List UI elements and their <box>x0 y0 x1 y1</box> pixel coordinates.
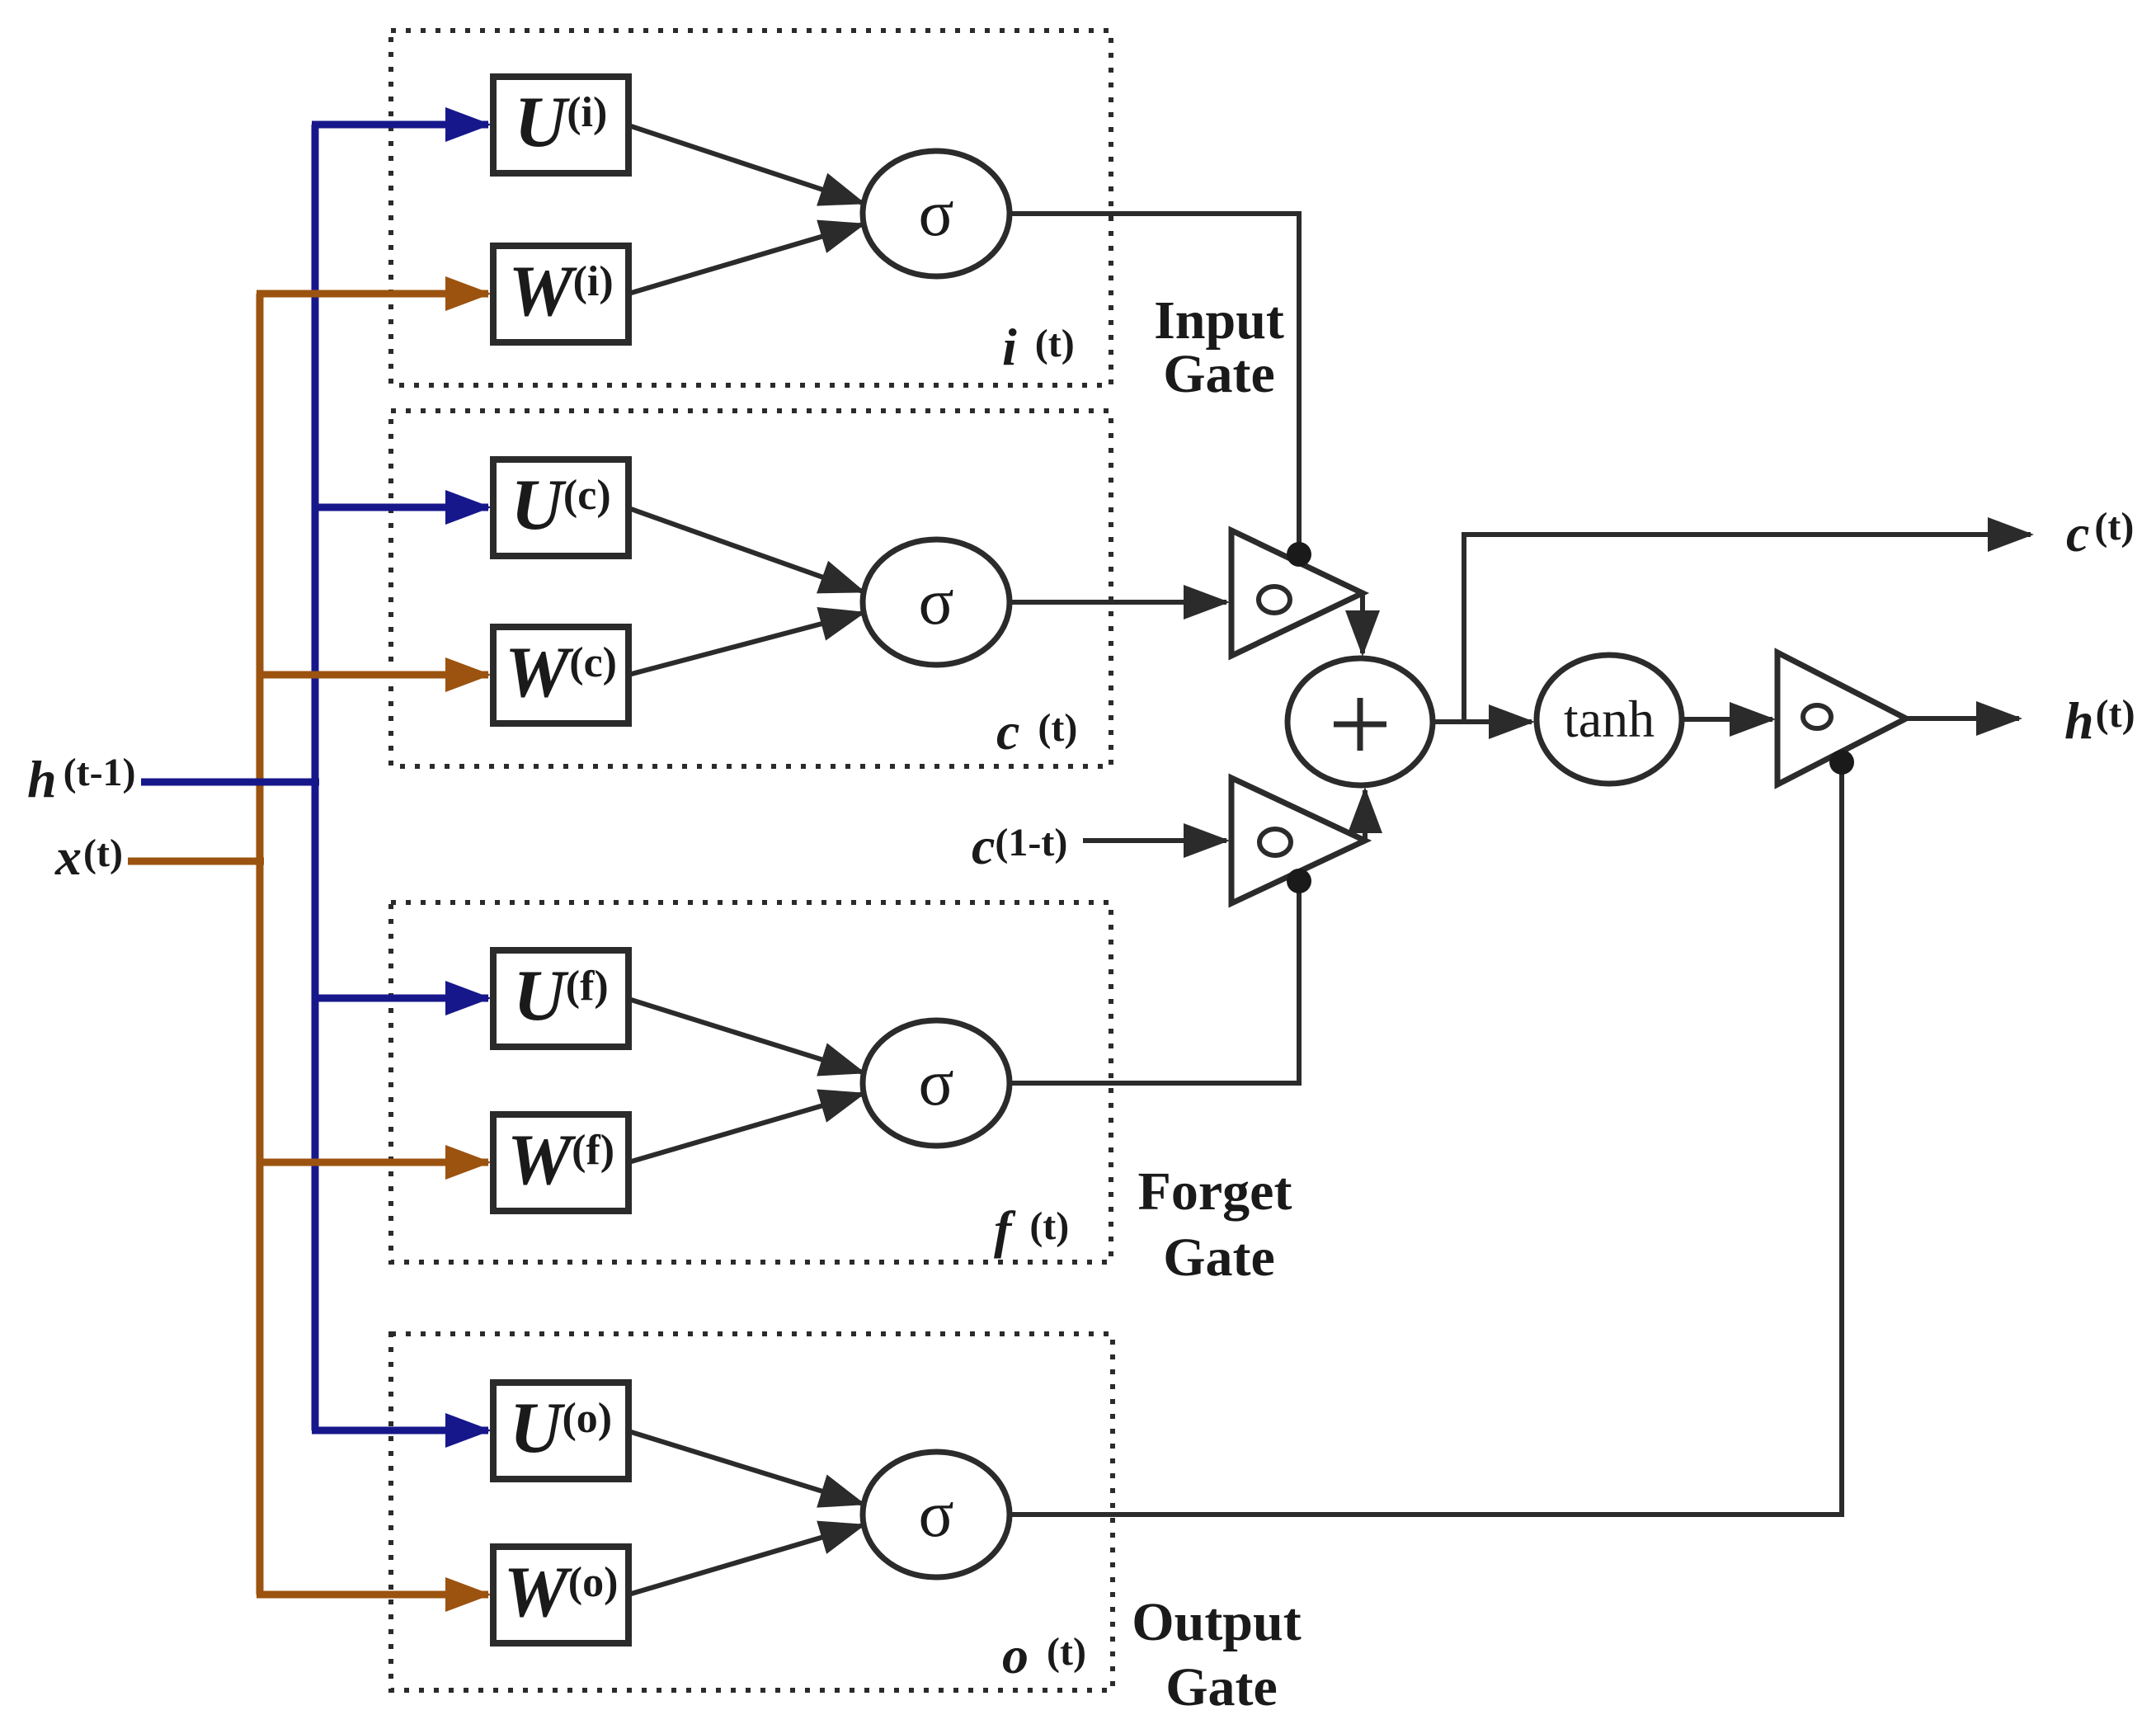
svg-text:h(t): h(t) <box>2064 691 2135 750</box>
svg-text:c(1-t): c(1-t) <box>972 817 1067 875</box>
svg-text:Input: Input <box>1154 290 1284 351</box>
svg-text:x(t): x(t) <box>54 827 123 886</box>
svg-text:Gate: Gate <box>1163 1227 1275 1288</box>
svg-text:h(t-1): h(t-1) <box>27 750 136 808</box>
svg-text:tanh: tanh <box>1564 690 1655 748</box>
svg-text:σ: σ <box>918 566 953 638</box>
svg-text:i(t): i(t) <box>1002 318 1075 376</box>
svg-text:c(t): c(t) <box>2066 504 2134 563</box>
svg-text:Output: Output <box>1132 1592 1301 1652</box>
svg-text:σ: σ <box>918 1478 953 1551</box>
svg-text:σ: σ <box>918 177 953 250</box>
svg-text:Gate: Gate <box>1165 1657 1278 1717</box>
svg-text:o(t): o(t) <box>1002 1626 1086 1684</box>
svg-text:Gate: Gate <box>1163 344 1275 404</box>
svg-text:σ: σ <box>918 1047 953 1119</box>
svg-text:c(t): c(t) <box>996 702 1077 761</box>
svg-text:f(t): f(t) <box>994 1200 1069 1259</box>
svg-text:Forget: Forget <box>1138 1161 1292 1222</box>
